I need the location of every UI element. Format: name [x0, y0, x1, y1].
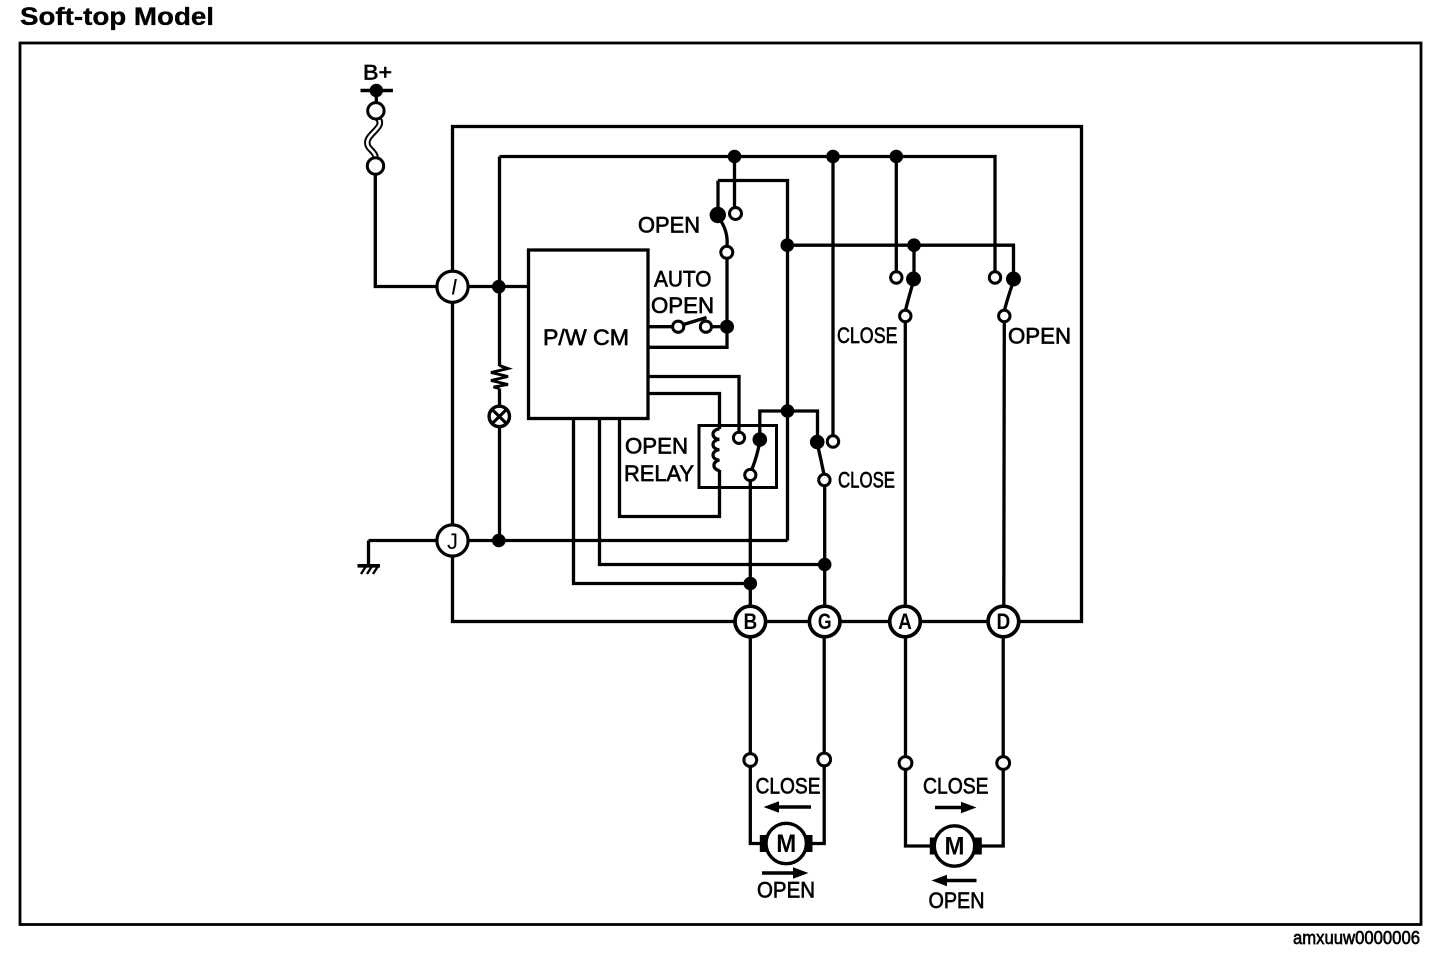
svg-text:OPEN: OPEN: [757, 878, 815, 903]
svg-text:CLOSE: CLOSE: [923, 774, 989, 799]
svg-text:amxuuw0000006: amxuuw0000006: [1293, 927, 1420, 948]
svg-text:OPEN: OPEN: [625, 434, 688, 459]
svg-text:OPEN: OPEN: [638, 213, 700, 238]
svg-text:CLOSE: CLOSE: [756, 774, 821, 799]
svg-text:CLOSE: CLOSE: [837, 323, 898, 348]
svg-text:M: M: [945, 833, 965, 861]
svg-text:B+: B+: [363, 61, 392, 85]
svg-text:G: G: [818, 609, 832, 634]
svg-text:Soft-top Model: Soft-top Model: [20, 3, 214, 31]
svg-text:M: M: [776, 830, 796, 858]
svg-text:CLOSE: CLOSE: [838, 468, 895, 493]
svg-text:OPEN: OPEN: [1008, 324, 1071, 349]
svg-text:OPEN: OPEN: [929, 888, 985, 913]
svg-text:I: I: [451, 275, 457, 300]
svg-text:P/W CM: P/W CM: [543, 325, 629, 350]
svg-text:A: A: [898, 609, 912, 634]
svg-text:B: B: [743, 609, 757, 634]
svg-text:AUTO: AUTO: [654, 267, 712, 292]
svg-text:D: D: [997, 609, 1011, 634]
svg-text:RELAY: RELAY: [624, 461, 694, 486]
svg-text:OPEN: OPEN: [651, 293, 714, 318]
svg-text:J: J: [447, 529, 458, 554]
